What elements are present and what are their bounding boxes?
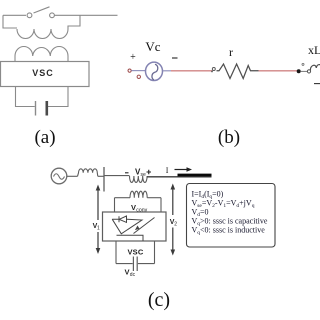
label V1 <box>93 223 100 232</box>
equation line 3 <box>192 208 209 219</box>
label Vconv <box>131 203 148 213</box>
label I current <box>166 166 169 175</box>
svg-text:V: V <box>131 203 136 212</box>
Vconv box top right edge <box>147 197 161 199</box>
bus bar B1 <box>103 167 105 192</box>
node circle before resistor <box>211 68 215 73</box>
capacitor Cdc left plate <box>132 257 134 272</box>
svg-text:+: + <box>130 52 136 63</box>
V2 measurement arrow <box>171 184 176 256</box>
transformer T1 secondary winding <box>15 47 68 56</box>
equation line 5 <box>192 226 266 237</box>
wire line thick segment <box>178 174 212 177</box>
label minus bottom right <box>314 83 320 85</box>
svg-text:(b): (b) <box>218 127 240 148</box>
equation line 1 <box>192 190 224 201</box>
switch SW1 right contact <box>50 13 55 18</box>
node small circle at inductor <box>307 70 310 73</box>
svg-text:V: V <box>125 268 130 277</box>
transformer T2 primary winding (series) <box>130 176 148 183</box>
VSC box (c) left side <box>115 242 117 264</box>
wire source to inductor <box>67 175 78 177</box>
converter bottom connection <box>117 235 144 241</box>
svg-text:I: I <box>166 166 169 175</box>
wire line thin right of transformer <box>147 176 211 178</box>
svg-text:xL: xL <box>308 43 320 57</box>
junction dot <box>297 69 301 73</box>
svg-text:Vc: Vc <box>145 39 160 54</box>
label plus Vse <box>147 170 152 175</box>
wire blue right stub <box>163 70 171 72</box>
wire to inductor <box>301 70 308 72</box>
svg-text:(a): (a) <box>34 127 55 148</box>
svg-text:(c): (c) <box>148 289 170 311</box>
svg-text:2: 2 <box>174 222 177 228</box>
terminal left open circle <box>128 69 131 72</box>
transformer T1 primary winding <box>17 29 68 39</box>
wire top bus right segment <box>55 14 118 16</box>
node degree mark <box>302 63 304 65</box>
label xL <box>308 43 320 57</box>
wire VSC left leg down <box>16 87 35 107</box>
label VSC (a) <box>32 68 54 78</box>
capacitor C1 left plate <box>35 101 37 116</box>
V1 measurement arrow <box>96 185 101 255</box>
wire line to series transformer <box>104 175 130 177</box>
converter box (c) <box>103 212 167 241</box>
svg-text:1: 1 <box>97 226 100 232</box>
VSC converter box (a) <box>1 62 90 87</box>
svg-text:Vq<0: sssc is inductive: Vq<0: sssc is inductive <box>192 226 266 237</box>
label r <box>229 45 233 59</box>
current direction arrow <box>175 167 193 171</box>
node marker small circle <box>137 75 140 78</box>
label Vc <box>145 39 160 54</box>
annotation text box <box>187 184 276 248</box>
wire top bus left segment <box>3 14 26 16</box>
AC source G1 circle <box>51 168 67 184</box>
wire secondary right lead <box>67 56 69 62</box>
equation line 4 <box>192 217 268 228</box>
wire secondary left lead <box>14 56 16 62</box>
inductor xL loops <box>310 65 320 71</box>
label VSC (c) <box>127 248 143 257</box>
wire left drop to transformer <box>3 15 17 28</box>
label minus Vse <box>125 172 129 174</box>
wire dc left <box>116 263 133 265</box>
svg-text:VSC: VSC <box>32 68 54 78</box>
caption (a) <box>34 127 55 148</box>
wire blue left <box>131 70 145 72</box>
converter switch symbol: diode <box>112 216 126 222</box>
equation line 2 <box>192 199 255 210</box>
converter switch symbol: gate arrow <box>134 218 155 234</box>
caption (c) <box>148 289 170 311</box>
wire VSC right leg down <box>48 87 68 107</box>
label Vdc <box>125 268 136 278</box>
svg-text:VSC: VSC <box>127 248 143 257</box>
capacitor C1 right plate <box>45 101 48 116</box>
svg-text:dc: dc <box>130 272 136 278</box>
VSC box (c) right side <box>154 242 156 264</box>
label Vse <box>135 168 146 179</box>
switch SW1 blade <box>34 7 50 13</box>
capacitor Cdc right plate <box>136 257 138 272</box>
switch SW1 left contact <box>27 13 32 18</box>
Vconv box top left edge <box>115 197 131 199</box>
Vconv box right side <box>160 198 162 212</box>
converter switch symbol: wedge triangle <box>112 219 142 234</box>
AC source U1 circle <box>146 62 163 80</box>
label minus (b) <box>172 57 178 59</box>
svg-text:r: r <box>229 45 233 59</box>
Vconv box left side <box>114 198 116 212</box>
wire red segment 1 <box>171 70 213 72</box>
caption (b) <box>218 127 240 148</box>
wire inductor to bus <box>98 175 104 177</box>
resistor r zigzag <box>217 64 259 79</box>
inductor L1 coil <box>78 169 98 177</box>
label V2 <box>170 219 177 228</box>
wire right drop to transformer <box>68 15 80 29</box>
wire dc right <box>138 263 155 265</box>
label plus (b) <box>130 52 136 63</box>
transformer T2 secondary winding <box>130 191 147 198</box>
wire red segment 2 <box>259 70 298 72</box>
